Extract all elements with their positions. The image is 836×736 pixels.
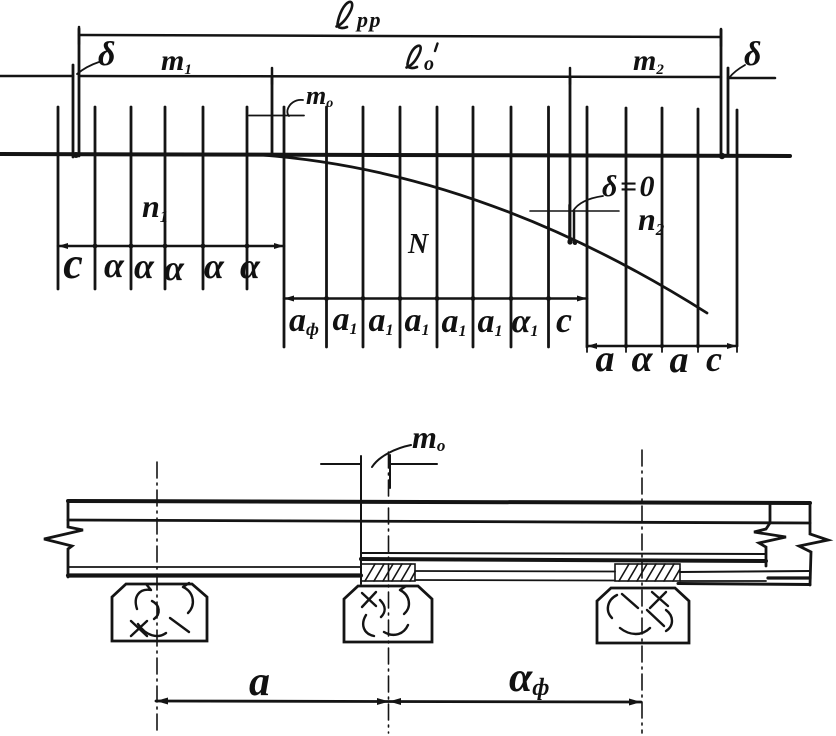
- svg-text:c: c: [556, 300, 572, 340]
- svg-text:c: c: [706, 339, 722, 379]
- svg-text:a: a: [670, 339, 689, 381]
- svg-text:α: α: [164, 248, 185, 288]
- svg-text:o: o: [424, 53, 434, 75]
- svg-text:a: a: [249, 659, 270, 705]
- svg-text:δ: δ: [744, 36, 761, 73]
- svg-text:N: N: [407, 229, 430, 260]
- svg-text:α1: α1: [512, 303, 539, 340]
- svg-text:α: α: [104, 245, 125, 285]
- svg-text:a: a: [596, 338, 615, 380]
- svg-text:αф: αф: [509, 655, 549, 701]
- svg-text:δ: δ: [98, 36, 115, 73]
- svg-text:α: α: [204, 246, 225, 286]
- svg-text:m1: m1: [161, 44, 192, 78]
- svg-text:a1: a1: [405, 302, 430, 339]
- svg-text:pp: pp: [355, 7, 382, 32]
- svg-text:a1: a1: [333, 301, 358, 338]
- svg-text:c: c: [63, 239, 83, 288]
- svg-text:m2: m2: [633, 44, 664, 78]
- svg-text:mo: mo: [412, 419, 445, 455]
- svg-text:a1: a1: [478, 303, 503, 340]
- svg-text:δ=0: δ=0: [602, 170, 657, 203]
- svg-text:α: α: [240, 246, 261, 286]
- svg-text:aф: aф: [289, 302, 319, 339]
- svg-text:α: α: [134, 246, 155, 286]
- svg-text:mo: mo: [306, 81, 333, 111]
- svg-text:α: α: [631, 338, 653, 380]
- svg-text:a1: a1: [442, 303, 467, 340]
- svg-text:a1: a1: [369, 302, 394, 339]
